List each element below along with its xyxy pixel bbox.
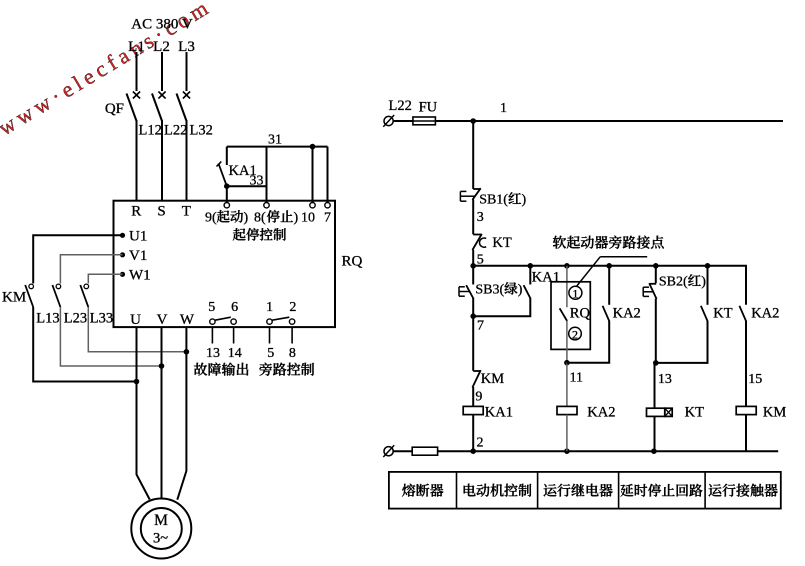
svg-text:V: V: [157, 312, 168, 328]
svg-text:U1: U1: [129, 229, 147, 245]
svg-text:9(: 9(: [205, 211, 217, 226]
terminal line2: [384, 447, 393, 456]
contact KM pole 3: [84, 284, 89, 289]
pin 7 terminal: [325, 203, 330, 208]
node bus5 at SB2: [653, 263, 659, 269]
node bus5 at KA1: [528, 263, 534, 269]
svg-text:SB3(: SB3(: [475, 283, 504, 298]
svg-text:14: 14: [228, 346, 242, 361]
wire KM2 to V: [60, 307, 161, 366]
wire 1 to SB1: [472, 121, 474, 189]
wire 11: [566, 363, 568, 407]
node line2 at KA2: [564, 448, 570, 454]
terminal circle 1: [569, 286, 582, 299]
svg-text:KA2: KA2: [587, 405, 615, 421]
contact KA1 start: [226, 147, 228, 165]
svg-text:KA2: KA2: [613, 306, 641, 322]
coil KM: [736, 406, 756, 414]
svg-text:): ): [244, 211, 249, 226]
svg-text:L22: L22: [389, 98, 412, 114]
svg-text:KT: KT: [713, 306, 732, 322]
wire to pin 10: [312, 147, 314, 203]
pin V1: [120, 252, 125, 257]
contact KA2 parallel: [608, 266, 610, 305]
wire W to motor: [177, 327, 186, 500]
wire 9: [472, 387, 474, 406]
wire L2 supply: [161, 52, 163, 91]
wire SB3 lower: [472, 298, 474, 316]
wire KT coil to bus: [654, 416, 656, 451]
wire to pin 7: [327, 147, 329, 203]
svg-text:2: 2: [572, 327, 578, 341]
svg-text:S: S: [157, 204, 165, 220]
coil KA2: [557, 406, 577, 414]
fuse FU: [413, 120, 436, 122]
node line1 junction: [470, 118, 476, 124]
svg-text:M: M: [154, 512, 168, 529]
wire L22 to RQ input: [161, 120, 163, 201]
terminal L22 control: [384, 116, 393, 125]
wire L12 to RQ input: [136, 120, 138, 201]
svg-text:13: 13: [658, 372, 672, 387]
svg-text:): ): [701, 275, 706, 290]
wire KM3 to W: [88, 307, 186, 352]
contact KM nc: [473, 370, 481, 372]
label start-stop control: [233, 228, 246, 240]
node U junction: [134, 379, 140, 385]
wire bus 5: [473, 266, 746, 305]
stub pin 8b: [291, 327, 293, 343]
wire KM1 to U: [33, 307, 136, 382]
svg-text:L23: L23: [64, 311, 87, 327]
fuse line2: [412, 447, 437, 455]
wire RQ branch upper: [566, 266, 568, 308]
motor M outer: [131, 499, 191, 559]
svg-text:11: 11: [570, 371, 583, 386]
wire 15: [745, 321, 747, 407]
node bus5 at RQ: [564, 263, 570, 269]
svg-text:SB2(: SB2(: [659, 275, 688, 290]
soft starter RQ box: [114, 201, 336, 327]
contact RQ bypass: [560, 308, 568, 321]
svg-text:1: 1: [266, 300, 273, 315]
svg-text:T: T: [182, 204, 191, 220]
svg-text:2: 2: [477, 436, 484, 451]
svg-text:R: R: [131, 204, 141, 220]
svg-text:L32: L32: [190, 123, 213, 139]
breaker QF pole 2: [158, 92, 165, 99]
contact bypass 1-2: [267, 319, 272, 324]
stub pin 14: [233, 327, 235, 343]
svg-text:7: 7: [324, 211, 331, 226]
svg-text:1: 1: [572, 287, 578, 301]
svg-text:3~: 3~: [153, 531, 168, 547]
button SB2: [655, 266, 657, 283]
wire 33: [227, 185, 267, 187]
svg-text:L22: L22: [164, 123, 187, 139]
contact KM pole 2: [56, 284, 61, 289]
button SB3: [472, 266, 474, 285]
svg-text:3: 3: [477, 210, 484, 225]
wire W1 to KM3: [88, 274, 122, 283]
pin U1: [120, 233, 125, 238]
svg-text:RQ: RQ: [342, 254, 363, 270]
breaker QF pole 1: [133, 92, 140, 99]
stub pin 5b: [269, 327, 271, 343]
callout line: [600, 256, 647, 258]
svg-text:8: 8: [289, 346, 296, 361]
table cell delay stop loop: [620, 484, 633, 497]
node V junction: [159, 363, 165, 369]
svg-text:W1: W1: [129, 268, 151, 284]
node 13 junction: [653, 360, 659, 366]
svg-text:): ): [522, 193, 527, 208]
svg-text:KA1: KA1: [532, 270, 560, 286]
wire 5: [472, 250, 474, 266]
svg-text:KM: KM: [763, 405, 786, 421]
svg-text:15: 15: [748, 372, 762, 387]
wire 3: [472, 200, 474, 235]
wire line 1: [435, 120, 783, 122]
pin 10 terminal: [310, 203, 315, 208]
svg-text:U: U: [130, 312, 141, 328]
wire L22 to FU: [393, 120, 413, 122]
wire 7: [472, 316, 474, 371]
stub pin 13: [211, 327, 213, 343]
svg-text:KM: KM: [481, 371, 504, 387]
node bus5 at KT: [705, 263, 711, 269]
svg-text:): ): [294, 211, 299, 226]
label fault output: [194, 363, 207, 376]
svg-text:KT: KT: [492, 235, 511, 251]
node line2 at KA1: [470, 448, 476, 454]
pin 9 terminal: [224, 203, 229, 208]
wire line 2: [393, 450, 412, 452]
watermark www.elecfans.com: [0, 0, 216, 140]
table cell fuse: [402, 484, 415, 497]
wire U1 to KM1: [33, 235, 122, 283]
svg-text:AC 380 V: AC 380 V: [131, 17, 193, 33]
node bus5 at KA2: [606, 263, 612, 269]
svg-text:5: 5: [208, 300, 215, 315]
svg-text:1: 1: [500, 101, 507, 116]
svg-text:SB1(: SB1(: [479, 193, 508, 208]
node 31-10 junction: [310, 144, 316, 150]
svg-text:33: 33: [250, 174, 264, 189]
wire 13 to KT coil: [654, 363, 656, 408]
svg-text:7: 7: [477, 319, 484, 334]
svg-text:5: 5: [267, 346, 274, 361]
coil KA1: [463, 406, 483, 414]
terminal circle 2: [569, 327, 582, 340]
wire L32 to RQ input: [186, 120, 188, 201]
svg-text:8(: 8(: [254, 211, 266, 226]
breaker QF pole 3: [183, 92, 190, 99]
table frame: [389, 472, 781, 509]
node 11 junction: [564, 360, 570, 366]
svg-text:9: 9: [475, 390, 482, 405]
wire V to motor: [161, 327, 163, 498]
node line2 at KT: [651, 448, 657, 454]
contact KA1 seal-in: [529, 266, 531, 285]
table cell run contactor: [709, 484, 722, 497]
svg-text:): ): [518, 283, 523, 298]
node 33 junction: [224, 183, 230, 189]
wire RQ branch lower: [566, 321, 568, 363]
contact fault output 5-6: [210, 319, 215, 324]
svg-text:RQ: RQ: [570, 306, 591, 322]
svg-text:L12: L12: [139, 123, 162, 139]
svg-text:2: 2: [289, 300, 296, 315]
wire 31: [227, 146, 328, 148]
svg-text:KA1: KA1: [485, 405, 513, 421]
svg-text:KT: KT: [685, 405, 704, 421]
svg-text:KM: KM: [2, 290, 26, 306]
wire KM coil to bus: [745, 415, 747, 452]
svg-text:L33: L33: [90, 311, 113, 327]
table cell run relay: [544, 484, 557, 497]
pin W1: [120, 272, 125, 277]
svg-text:QF: QF: [105, 101, 124, 117]
node 7 junction: [470, 313, 476, 319]
callout bypass contact label: [553, 236, 566, 249]
wire 2: [472, 415, 474, 452]
table cell motor control: [464, 484, 476, 497]
wire L3 supply: [186, 52, 188, 91]
svg-text:31: 31: [268, 133, 282, 148]
wire V1 to KM2: [60, 255, 122, 284]
svg-text:FU: FU: [419, 100, 438, 116]
node W junction: [184, 349, 190, 355]
button SB1: [473, 188, 481, 190]
pin 8 terminal: [264, 203, 269, 208]
contact KT no: [707, 266, 709, 305]
contact KT delay: [473, 234, 482, 236]
coil KT: [647, 408, 665, 416]
wire to pin 8: [266, 147, 268, 203]
svg-text:W: W: [180, 312, 195, 328]
svg-text:V1: V1: [129, 248, 147, 264]
motor M inner: [141, 508, 182, 549]
wire SB2 lower: [655, 299, 657, 363]
wire U to motor: [137, 327, 150, 499]
svg-text:10: 10: [301, 211, 315, 226]
svg-text:KA2: KA2: [751, 306, 779, 322]
svg-text:6: 6: [231, 300, 238, 315]
wire KA2 coil to bus: [566, 415, 568, 452]
node bus5 at SB3: [470, 263, 476, 269]
wire L1 supply: [136, 52, 138, 91]
svg-text:L13: L13: [36, 311, 59, 327]
svg-text:13: 13: [206, 346, 220, 361]
label bypass control: [259, 363, 272, 376]
soft starter bypass box: [551, 282, 590, 350]
contact KA2 right: [745, 304, 747, 306]
contact KM pole 1: [29, 284, 34, 289]
